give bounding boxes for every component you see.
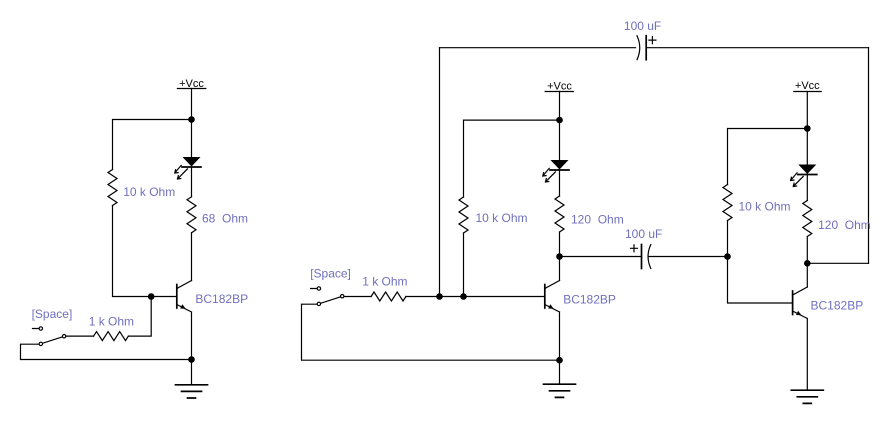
svg-text:10 k Ohm: 10 k Ohm bbox=[476, 211, 528, 225]
svg-text:+Vcc: +Vcc bbox=[547, 81, 572, 93]
svg-text:120 Ohm: 120 Ohm bbox=[818, 218, 871, 232]
svg-text:[Space]: [Space] bbox=[310, 266, 351, 280]
svg-text:[Space]: [Space] bbox=[32, 307, 73, 321]
svg-text:100 uF: 100 uF bbox=[624, 19, 661, 33]
svg-text:100 uF: 100 uF bbox=[625, 227, 662, 241]
svg-text:1 k Ohm: 1 k Ohm bbox=[89, 315, 134, 329]
svg-text:BC182BP: BC182BP bbox=[195, 292, 248, 306]
svg-text:BC182BP: BC182BP bbox=[811, 299, 864, 313]
svg-text:BC182BP: BC182BP bbox=[563, 292, 616, 306]
svg-text:10 k Ohm: 10 k Ohm bbox=[123, 185, 175, 199]
svg-text:68 Ohm: 68 Ohm bbox=[202, 212, 248, 226]
svg-text:1 k Ohm: 1 k Ohm bbox=[362, 274, 407, 288]
svg-text:120 Ohm: 120 Ohm bbox=[571, 213, 624, 227]
svg-text:10 k Ohm: 10 k Ohm bbox=[739, 199, 791, 213]
svg-text:+Vcc: +Vcc bbox=[795, 80, 820, 92]
